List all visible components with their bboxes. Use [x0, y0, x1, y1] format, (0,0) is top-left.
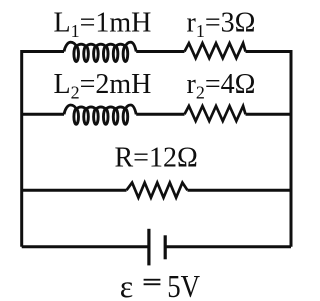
wire row2 middle between L2 and r2 — [136, 113, 184, 116]
label emf equals sign top bar — [144, 279, 161, 281]
svg-text:R=12Ω: R=12Ω — [115, 142, 198, 173]
svg-text:ε: ε — [120, 268, 133, 301]
svg-text:r2=4Ω: r2=4Ω — [187, 69, 256, 103]
svg-text:5V: 5V — [167, 268, 200, 301]
wire left vertical and top-left segment — [22, 52, 64, 247]
inductor L2 — [64, 105, 136, 124]
label emf equals sign bottom bar — [144, 283, 161, 285]
resistor r1 — [185, 43, 246, 58]
resistor R — [127, 183, 188, 198]
wire top-right segment and right vertical — [246, 52, 292, 247]
wire bottom left segment — [22, 245, 148, 248]
wire row2 left stub — [22, 113, 64, 116]
battery negative plate short — [164, 235, 167, 259]
svg-text:L2=2mH: L2=2mH — [54, 69, 152, 103]
wire row2 right stub — [246, 113, 292, 116]
inductor L1 — [64, 42, 136, 61]
resistor r2 — [185, 106, 246, 121]
svg-text:L1=1mH: L1=1mH — [54, 7, 152, 41]
wire top middle between L1 and r1 — [136, 50, 184, 53]
wire bottom right segment — [165, 245, 291, 248]
battery positive plate long — [147, 229, 150, 266]
wire row3 right segment — [188, 189, 292, 192]
wire row3 left segment — [22, 189, 127, 192]
svg-text:r1=3Ω: r1=3Ω — [187, 7, 256, 41]
